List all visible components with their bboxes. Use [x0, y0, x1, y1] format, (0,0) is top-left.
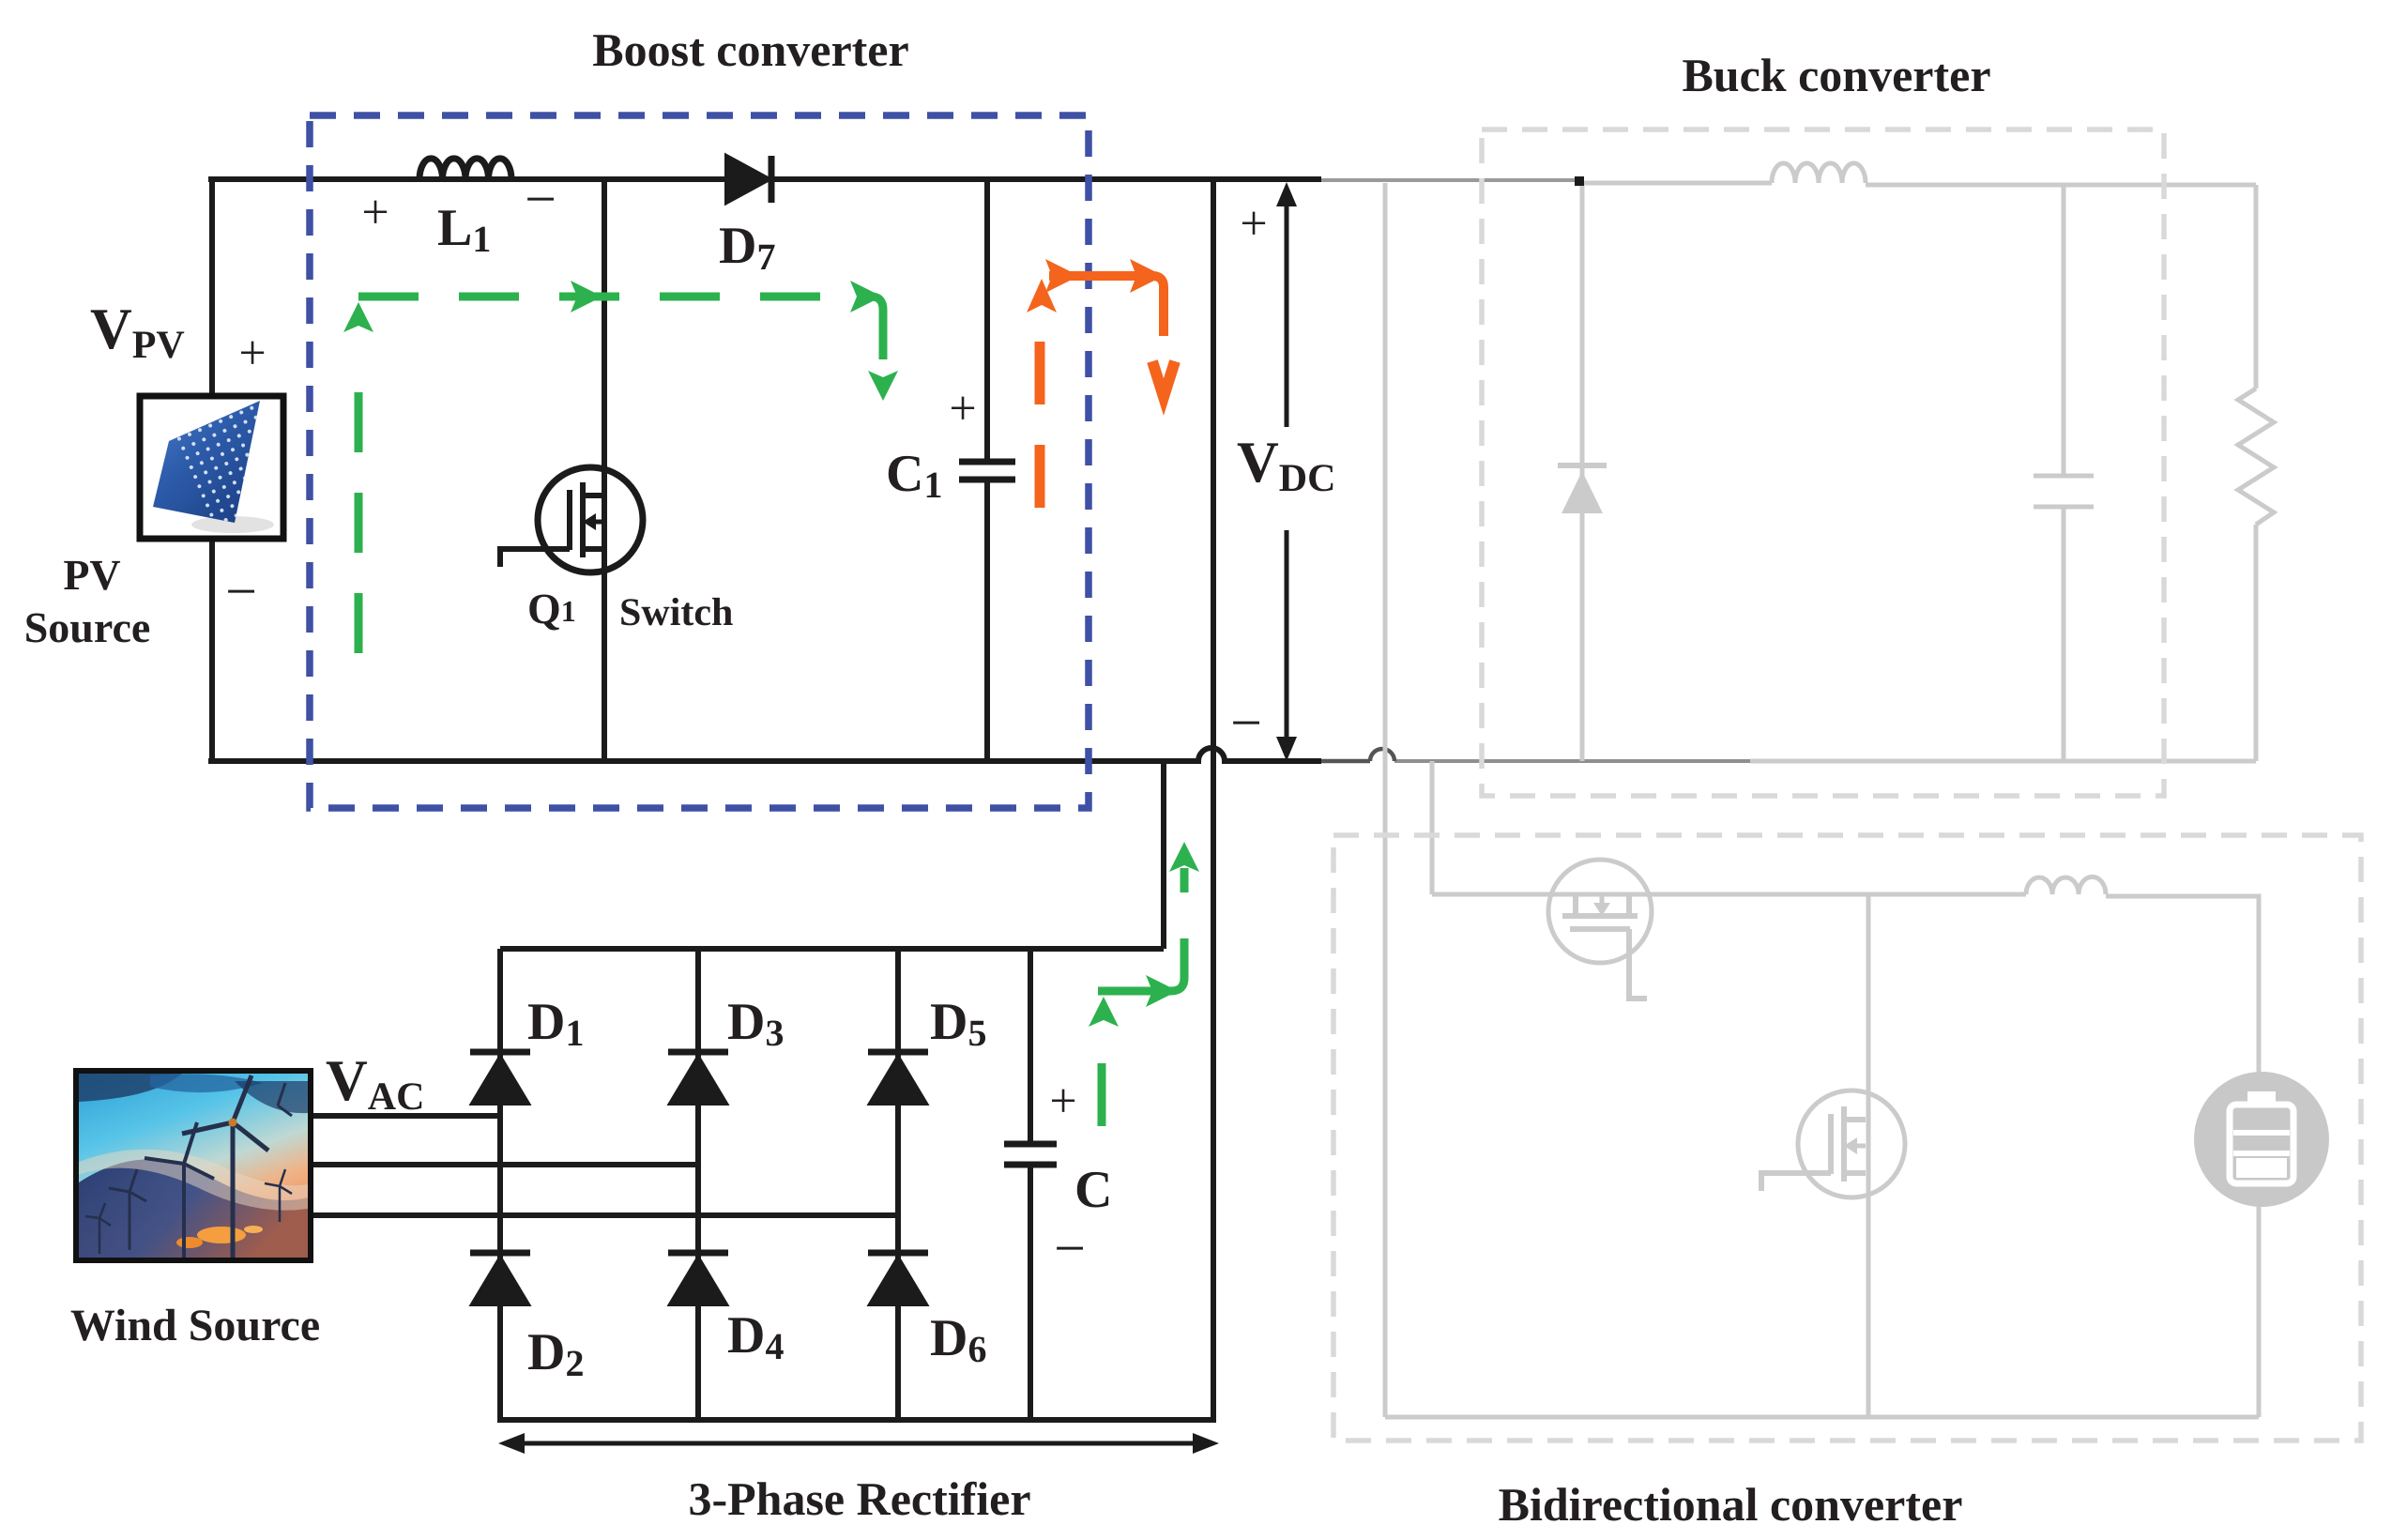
svg-text:−: − [525, 168, 556, 230]
diode D3 [668, 1052, 728, 1104]
transistor Q bidirectional bottom (mosfet B) [1798, 1090, 1905, 1197]
orange dashes return leg [1035, 342, 1045, 508]
svg-text:Switch: Switch [619, 591, 733, 634]
svg-text:+: + [238, 327, 266, 380]
wire: left vertical below PV [209, 539, 215, 764]
svg-text:C1: C1 [886, 445, 942, 506]
svg-text:+: + [1049, 1075, 1076, 1128]
svg-text:+: + [1240, 197, 1267, 251]
svg-text:3-Phase Rectifier: 3-Phase Rectifier [688, 1472, 1030, 1525]
green elbow horizontal to right [1098, 938, 1184, 991]
phase wire c [311, 1212, 898, 1218]
rectifier C leg upper [1028, 949, 1033, 1144]
svg-text:Source: Source [24, 603, 151, 651]
orange horizontal run [1049, 271, 1151, 281]
wire: bidirectional bottom rail [1385, 1415, 2259, 1420]
wire: bidirectional rail to battery [2106, 896, 2259, 1075]
svg-text:−: − [225, 560, 257, 622]
svg-text:Q1: Q1 [527, 585, 576, 633]
wire: buck right drop to load [2254, 185, 2259, 389]
wire: Q1 drain vertical [602, 179, 607, 761]
diode D1 [470, 1052, 530, 1104]
capacitor C1 plates [959, 462, 1015, 480]
svg-text:+: + [949, 382, 976, 435]
svg-text:Boost converter: Boost converter [592, 23, 908, 76]
inductor L bidirectional [2026, 877, 2106, 894]
wire: boost output vertical (top bus to rectifier bottom) [1211, 179, 1216, 1420]
green arrowhead right at Q1 node [571, 281, 602, 313]
svg-text:VPV: VPV [90, 297, 185, 367]
wind source photo [76, 1071, 311, 1260]
diode D7 [726, 156, 769, 203]
orange arrowhead down chevron [1152, 361, 1175, 397]
green arrowhead up near C [1089, 997, 1119, 1027]
junction dot buck feed [1575, 176, 1584, 186]
green vertical rising to bus [1181, 868, 1189, 892]
wire: bidirectional middle leg [1866, 894, 1871, 1417]
inductor L buck [1772, 163, 1866, 183]
rectifier leg D1 D2 [497, 949, 503, 1420]
orange arrowhead right at corner [1130, 259, 1164, 293]
wire: C1 branch lower [984, 480, 990, 761]
diode D5 [868, 1052, 928, 1104]
battery icon circle [2194, 1072, 2329, 1207]
wire: battery to bottom rail [2257, 1204, 2262, 1417]
wire: buck bottom rail mid [1394, 759, 1750, 763]
svg-text:PV: PV [63, 551, 120, 599]
transistor Q1 circle [538, 467, 643, 572]
VDC measuring arrow [1276, 182, 1297, 761]
dashed box: Boost converter [310, 115, 1089, 808]
wire: buck load bottom drop [2254, 525, 2259, 761]
wire: top DC+ bus [208, 176, 1321, 182]
capacitor C buck [2062, 185, 2066, 761]
dashed box: Buck converter [1482, 130, 2164, 796]
svg-text:−: − [1230, 692, 1262, 754]
svg-text:Bidirectional converter: Bidirectional converter [1499, 1478, 1963, 1531]
svg-text:D5: D5 [930, 993, 986, 1054]
wire: buck top rail right of inductor [1866, 183, 2256, 188]
svg-text:D4: D4 [727, 1306, 784, 1367]
svg-text:D2: D2 [527, 1323, 584, 1384]
green arrowhead up boost left [343, 302, 373, 332]
svg-text:D6: D6 [930, 1309, 986, 1370]
transistor Q buck-bidir top (mosfet A) [1548, 860, 1652, 963]
svg-text:L1: L1 [437, 199, 491, 260]
rectifier top bus [500, 946, 1164, 952]
PV panel art [153, 401, 305, 536]
svg-text:D1: D1 [527, 993, 584, 1054]
green current path boost: horizontal [358, 293, 849, 301]
diode D2 [470, 1253, 530, 1304]
wire: DC+ drop to bidirectional (vert 1) [1383, 183, 1388, 1417]
svg-text:Buck converter: Buck converter [1682, 49, 1990, 101]
svg-text:D7: D7 [719, 217, 775, 278]
green elbow arrow right then down [850, 281, 882, 313]
wire: DC- drop to bidirectional (vert 2) [1430, 761, 1435, 894]
phase wire b [311, 1162, 698, 1167]
wire: bidirectional top rail [1432, 892, 2026, 897]
green current path boost: left vertical [355, 392, 363, 657]
svg-text:−: − [1054, 1217, 1086, 1279]
wire: buck top rail to inductor [1579, 181, 1772, 186]
svg-text:D3: D3 [727, 993, 784, 1054]
green current path rectifier: dash near C [1098, 1063, 1106, 1126]
phase wire a [311, 1113, 500, 1119]
PV source box [140, 396, 283, 539]
diode D4 [668, 1253, 728, 1304]
inductor L1 [419, 159, 511, 179]
wire: bottom DC- bus with hop over output vertical [208, 748, 1321, 761]
resistor R load buck [2238, 389, 2274, 525]
wire: rectifier feed vertical [1161, 761, 1166, 949]
svg-text:C: C [1074, 1161, 1112, 1219]
wire: left vertical above PV [209, 176, 215, 396]
wire: buck bottom rail light [1750, 759, 2256, 764]
wire: buck top feed (gray continuation of DC+ bus) [1319, 178, 1579, 182]
dashed box: Bidirectional converter [1333, 835, 2361, 1441]
svg-text:Wind Source: Wind Source [70, 1301, 320, 1350]
green arrowhead up to bus [1169, 842, 1199, 872]
rectifier C leg lower [1028, 1165, 1033, 1420]
rectifier leg D3 D4 [695, 949, 701, 1420]
capacitor C plates [1004, 1144, 1057, 1165]
green arrowhead down boost [868, 371, 898, 401]
svg-text:VAC: VAC [326, 1049, 424, 1119]
diode D buck [1580, 183, 1585, 761]
orange vertical down segment [1152, 276, 1164, 336]
svg-text:+: + [361, 186, 389, 239]
orange arrowhead up at C1 [1027, 279, 1057, 313]
3-phase rectifier span arrow [498, 1433, 1219, 1454]
rectifier leg D5 D6 [895, 949, 901, 1420]
rectifier bottom bus [497, 1417, 1216, 1423]
svg-text:VDC: VDC [1237, 431, 1335, 500]
orange arrowhead right mid [1045, 259, 1079, 293]
wire: C1 branch upper [984, 179, 990, 460]
diode D6 [868, 1253, 928, 1304]
